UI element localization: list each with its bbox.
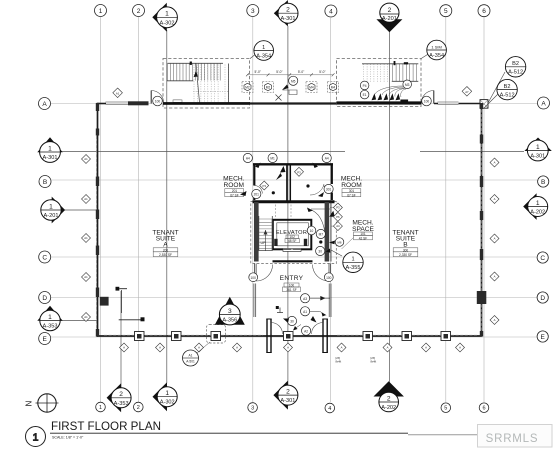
stair treads top-right solid bbox=[393, 64, 417, 81]
svg-text:3: 3 bbox=[228, 308, 232, 315]
svg-text:A1: A1 bbox=[116, 91, 120, 95]
svg-text:4: 4 bbox=[328, 406, 331, 412]
svg-text:301: 301 bbox=[349, 189, 355, 193]
svg-text:3: 3 bbox=[251, 8, 255, 15]
black block on wall bbox=[400, 100, 408, 102]
entry tag circles A3 A1 A2 30 bbox=[287, 294, 310, 336]
svg-text:A7: A7 bbox=[465, 90, 469, 94]
svg-text:5'-0": 5'-0" bbox=[319, 70, 325, 74]
section line A-301 horizontal right bbox=[420, 151, 524, 153]
svg-text:C: C bbox=[540, 255, 545, 262]
svg-text:A-301: A-301 bbox=[530, 154, 545, 160]
entry door left leaf bbox=[254, 264, 256, 282]
break mark X bbox=[276, 95, 282, 101]
svg-text:A: A bbox=[42, 101, 47, 108]
svg-text:A-353: A-353 bbox=[114, 401, 129, 407]
svg-text:A-354: A-354 bbox=[429, 53, 444, 59]
svg-text:1: 1 bbox=[536, 200, 540, 207]
svg-text:48 SF: 48 SF bbox=[288, 239, 297, 243]
svg-text:2,530 SF: 2,530 SF bbox=[159, 253, 172, 257]
svg-text:P3: P3 bbox=[297, 170, 301, 174]
svg-text:A: A bbox=[541, 100, 546, 107]
left grid bubbles A-E bbox=[39, 98, 52, 345]
mech rooms divider wall bbox=[287, 164, 290, 200]
black dot near right wall bbox=[319, 240, 322, 243]
mech room right door swing bbox=[324, 185, 332, 193]
section line A-201 leader left bbox=[61, 209, 97, 211]
detail marker 3/A-356 in plan (top-half black) bbox=[215, 297, 245, 325]
svg-text:1: 1 bbox=[351, 257, 354, 263]
arrows near elevator right bbox=[307, 208, 313, 213]
section marker 2/A-201 top (bottom-half black) bbox=[376, 3, 402, 32]
top wall sill mark bbox=[174, 100, 181, 103]
window tag diamond top right A7 bbox=[462, 87, 472, 97]
section line A-353 vertical (bottom) bbox=[120, 291, 122, 388]
svg-text:P4: P4 bbox=[363, 84, 367, 88]
svg-text:E: E bbox=[541, 334, 546, 341]
title underline bbox=[50, 432, 408, 434]
svg-text:A-202: A-202 bbox=[381, 405, 396, 411]
door tag 100B top-left bbox=[153, 96, 163, 106]
svg-text:M8: M8 bbox=[338, 241, 342, 245]
svg-text:A-201: A-201 bbox=[382, 16, 397, 22]
section line A-301 horizontal left bbox=[57, 151, 345, 153]
svg-text:1: 1 bbox=[165, 390, 169, 397]
right grid bubbles A-E bbox=[537, 97, 549, 342]
svg-text:A1: A1 bbox=[84, 275, 88, 279]
svg-text:A-353: A-353 bbox=[43, 324, 58, 330]
exterior wall top (grid A) bbox=[97, 103, 482, 337]
curved leaders from M3 to flags bbox=[375, 86, 406, 97]
vestibule door arcs at bottom wall bbox=[271, 323, 283, 335]
svg-text:5'-0": 5'-0" bbox=[298, 70, 304, 74]
section marker 1/A-302 bottom (left-half black) bbox=[153, 382, 178, 411]
watermark line bbox=[408, 434, 478, 436]
small duct outline below M5 bbox=[283, 90, 298, 95]
door top-left swing arc bbox=[151, 91, 164, 104]
entry black arrows bbox=[311, 316, 317, 323]
svg-text:5: 5 bbox=[444, 8, 448, 15]
section marker 2/A-202 bottom (top-half black) bbox=[374, 381, 404, 412]
stair enclosure top-left (dashed) bbox=[163, 59, 250, 109]
right wall window glazing dashes bbox=[480, 110, 482, 332]
black tick top-right bbox=[394, 61, 396, 65]
svg-text:A3: A3 bbox=[303, 297, 307, 301]
svg-text:A: A bbox=[494, 275, 496, 279]
section line A-302 vertical bbox=[57, 26, 524, 388]
section marker 1/A-301 right (top-half black) bbox=[524, 138, 551, 161]
tag M5 circle bbox=[289, 76, 298, 85]
svg-text:M7: M7 bbox=[319, 233, 324, 237]
section line A-201/A-202 vertical bbox=[388, 31, 390, 386]
svg-text:1: 1 bbox=[536, 144, 540, 151]
svg-text:1: 1 bbox=[99, 405, 102, 411]
svg-text:A1: A1 bbox=[84, 157, 88, 161]
svg-text:A: A bbox=[494, 318, 496, 322]
svg-text:4: 4 bbox=[329, 8, 333, 15]
svg-text:8x4ft: 8x4ft bbox=[336, 360, 342, 364]
svg-text:6: 6 bbox=[482, 8, 486, 15]
top-right corner block bbox=[480, 100, 488, 109]
stair enclosure top-right (dashed) bbox=[337, 59, 422, 107]
svg-text:1: 1 bbox=[99, 8, 103, 15]
demo notes below wall bbox=[336, 356, 377, 364]
svg-text:67 SF: 67 SF bbox=[347, 194, 356, 198]
core stair treads bbox=[259, 219, 272, 249]
svg-text:100: 100 bbox=[326, 276, 332, 280]
svg-text:M2: M2 bbox=[245, 86, 250, 90]
arrows at core right wall bbox=[329, 211, 335, 217]
svg-text:A4: A4 bbox=[336, 224, 340, 228]
svg-text:2: 2 bbox=[137, 8, 141, 15]
bottom grid bubbles 1-6 bbox=[96, 402, 489, 413]
wall under stair top-left (thick) bbox=[163, 102, 250, 105]
mech rooms top wall bbox=[253, 163, 333, 165]
elevator door detail bbox=[283, 249, 301, 251]
A1/A-501 tag below wall bbox=[183, 342, 211, 366]
svg-text:2: 2 bbox=[388, 7, 392, 14]
mech rooms bottom wall (lobby top) bbox=[253, 200, 335, 203]
svg-text:SRRMLS: SRRMLS bbox=[486, 433, 539, 445]
core stair sides bbox=[259, 216, 273, 251]
svg-text:A-301: A-301 bbox=[281, 16, 296, 22]
svg-text:1: 1 bbox=[33, 431, 39, 443]
svg-text:A-201: A-201 bbox=[44, 213, 59, 219]
svg-text:67 SF: 67 SF bbox=[230, 194, 239, 198]
mech space door arc bbox=[313, 211, 327, 246]
svg-text:1: 1 bbox=[165, 11, 169, 18]
svg-text:A-301: A-301 bbox=[43, 155, 58, 161]
exterior wall right (line 6) bbox=[481, 103, 483, 337]
leader arrows from A4/M1 bbox=[255, 163, 318, 173]
svg-text:A1: A1 bbox=[84, 236, 88, 240]
svg-text:B: B bbox=[403, 241, 408, 248]
section marker 1/A-353 left (top-half black) bbox=[37, 306, 62, 331]
curved leader from 301 tag bbox=[310, 184, 324, 195]
stair treads top-left upper flight bbox=[168, 64, 221, 81]
svg-text:A: A bbox=[494, 237, 496, 241]
door top-left leaf bbox=[150, 91, 152, 104]
room tag left mech bbox=[225, 189, 244, 197]
svg-text:A-512: A-512 bbox=[508, 70, 523, 76]
small mark near entry left bbox=[277, 308, 283, 313]
svg-text:A-302: A-302 bbox=[160, 400, 175, 406]
svg-text:SCALE: 1/8" = 1'-0": SCALE: 1/8" = 1'-0" bbox=[52, 436, 84, 440]
svg-text:30: 30 bbox=[318, 250, 322, 254]
elevation circle 1/A-354 top middle bbox=[250, 41, 274, 61]
wall under stair top-right (thick) bbox=[337, 101, 422, 104]
svg-text:5'-0": 5'-0" bbox=[255, 70, 261, 74]
svg-text:A4: A4 bbox=[246, 157, 250, 161]
exterior wall bottom (grid E) bbox=[97, 335, 482, 337]
section line A-353 leader left bbox=[57, 320, 97, 322]
svg-text:A1: A1 bbox=[189, 354, 193, 358]
svg-text:A: A bbox=[494, 197, 496, 201]
svg-text:42 SF: 42 SF bbox=[359, 236, 368, 240]
right wall window stubs bbox=[480, 103, 483, 337]
tag E1 bbox=[360, 90, 369, 99]
section marker 1/A-301 left (top-half black) bbox=[37, 137, 62, 162]
entry door tag 100A left bbox=[249, 273, 258, 282]
svg-text:A: A bbox=[236, 346, 238, 350]
svg-text:[2X]: [2X] bbox=[371, 356, 376, 360]
grid lines bbox=[51, 17, 537, 402]
window tag diamonds right wall bbox=[490, 158, 499, 325]
window tag diamonds bottom wall bbox=[120, 343, 465, 352]
dimension ticks bbox=[246, 73, 335, 76]
M7 circle tag bbox=[316, 229, 325, 238]
detail circle 1/A-355 right of core bbox=[331, 250, 363, 273]
entry hall wall right bbox=[329, 284, 331, 318]
elevator shaft bbox=[273, 220, 312, 250]
svg-text:301: 301 bbox=[326, 188, 332, 192]
svg-text:1 SIM: 1 SIM bbox=[431, 44, 441, 49]
dimension line between stairs bbox=[247, 74, 333, 76]
core dashed outline bbox=[251, 202, 336, 264]
north arrow bbox=[36, 394, 59, 412]
top grid bubbles 1-6 bbox=[95, 5, 491, 18]
svg-text:B2: B2 bbox=[512, 61, 519, 67]
svg-text:M4: M4 bbox=[309, 86, 314, 90]
core left wall bbox=[254, 202, 259, 262]
svg-text:A-501: A-501 bbox=[186, 360, 195, 364]
svg-text:2: 2 bbox=[286, 7, 290, 14]
svg-text:2: 2 bbox=[119, 391, 123, 398]
svg-text:2: 2 bbox=[137, 405, 140, 411]
svg-text:FIRST FLOOR PLAN: FIRST FLOOR PLAN bbox=[51, 420, 161, 433]
elevator car bbox=[277, 223, 309, 246]
svg-text:201: 201 bbox=[254, 193, 260, 197]
entry leader lines/arrows bbox=[310, 296, 330, 300]
svg-text:1: 1 bbox=[262, 45, 265, 51]
svg-text:A-356: A-356 bbox=[222, 318, 237, 324]
svg-text:6: 6 bbox=[482, 406, 485, 412]
mech rooms right wall bbox=[331, 164, 333, 201]
svg-text:100: 100 bbox=[289, 284, 295, 288]
svg-text:1: 1 bbox=[49, 203, 53, 210]
svg-text:8x4ft: 8x4ft bbox=[371, 360, 377, 364]
leaders from right core tags bbox=[330, 208, 333, 227]
door tag 201 bbox=[252, 189, 261, 198]
section marker 1/A-201 left (right-half black) bbox=[41, 197, 65, 224]
svg-text:1: 1 bbox=[48, 145, 52, 152]
svg-text:201: 201 bbox=[232, 189, 238, 193]
tenant A demising partition bbox=[116, 287, 145, 322]
svg-text:A-355: A-355 bbox=[346, 265, 361, 271]
tag P4 bbox=[360, 81, 369, 90]
svg-text:A: A bbox=[159, 346, 161, 350]
30 circle tag (elevator) bbox=[316, 246, 325, 255]
M5 leader flag bbox=[282, 85, 289, 91]
svg-text:A: A bbox=[459, 346, 461, 350]
right wall column at grid D bbox=[477, 291, 487, 304]
svg-text:100: 100 bbox=[155, 100, 161, 104]
stair treads top-right dotted bbox=[364, 64, 388, 82]
svg-text:M4: M4 bbox=[331, 86, 336, 90]
svg-text:5: 5 bbox=[444, 406, 447, 412]
svg-text:A: A bbox=[287, 346, 289, 350]
entry vestibule left wall bbox=[266, 319, 328, 353]
svg-text:M5: M5 bbox=[291, 79, 296, 83]
svg-text:E: E bbox=[43, 336, 48, 343]
section marker 1/A-202 right (left-half black) bbox=[523, 193, 548, 220]
svg-text:A-302: A-302 bbox=[160, 20, 175, 26]
svg-text:E1: E1 bbox=[363, 93, 367, 97]
svg-text:A: A bbox=[387, 346, 389, 350]
core stair UP arrow bbox=[265, 230, 267, 251]
bottom wall glazing dashes bbox=[104, 334, 478, 336]
top wall solid segment bbox=[128, 101, 149, 105]
svg-text:A: A bbox=[163, 241, 168, 248]
svg-text:A-512: A-512 bbox=[500, 92, 515, 98]
svg-text:ROOM: ROOM bbox=[224, 182, 245, 189]
svg-text:ROOM: ROOM bbox=[341, 182, 362, 189]
stair top-left edge lines bbox=[167, 63, 229, 102]
svg-text:1: 1 bbox=[48, 314, 52, 321]
bottom wall columns bbox=[135, 332, 451, 341]
entry vestibule right wall bbox=[322, 319, 324, 353]
P3 diamonds in mech rooms bbox=[260, 167, 304, 190]
svg-text:3: 3 bbox=[251, 406, 254, 412]
lobby dashed guides bbox=[276, 205, 292, 220]
louver tag boxes M2 M2 M4 M4 bbox=[242, 82, 339, 93]
svg-text:B: B bbox=[43, 179, 47, 186]
entry door right swing arc bbox=[313, 265, 330, 282]
svg-text:2: 2 bbox=[286, 388, 290, 395]
stair top-left dotted landing line bbox=[193, 91, 228, 93]
door top-right leaf bbox=[433, 91, 435, 104]
mech space tag leader bbox=[342, 238, 354, 250]
svg-text:A1: A1 bbox=[303, 310, 307, 314]
door tag 100B top-right bbox=[422, 96, 432, 106]
svg-text:P6: P6 bbox=[336, 215, 340, 219]
black tick on top edge bbox=[190, 62, 192, 65]
svg-text:P3: P3 bbox=[336, 206, 340, 210]
svg-text:A1: A1 bbox=[84, 197, 88, 201]
svg-text:M3: M3 bbox=[405, 83, 410, 87]
dashed box around column near A-356 bbox=[207, 325, 226, 344]
tag 10 circle at elevator bbox=[307, 226, 316, 235]
exterior wall left (line 1) bbox=[97, 103, 99, 337]
svg-text:2,330 SF: 2,330 SF bbox=[399, 253, 412, 257]
elevator door posts bbox=[274, 239, 277, 246]
svg-text:P3: P3 bbox=[262, 184, 266, 188]
svg-text:100: 100 bbox=[251, 276, 257, 280]
detail circles B2/A-512 top right corner bbox=[484, 57, 526, 108]
elevation circle 1 SIM/A-354 top right bbox=[421, 40, 446, 60]
watermark box SRRMLS bbox=[478, 425, 553, 448]
top wall window band left bbox=[106, 100, 489, 109]
left wall window stubs bbox=[96, 103, 109, 337]
left wall window glazing dashes bbox=[95, 136, 97, 329]
core top tag circles A4 M1 A4 bbox=[243, 153, 331, 162]
room tag right mech bbox=[342, 189, 361, 197]
svg-text:5'-0": 5'-0" bbox=[276, 70, 282, 74]
door top-right swing arc bbox=[421, 91, 434, 104]
stair top-right edge lines bbox=[362, 64, 418, 82]
svg-text:N: N bbox=[25, 401, 34, 407]
svg-text:C: C bbox=[42, 254, 47, 261]
svg-text:A1: A1 bbox=[84, 315, 88, 319]
svg-text:2: 2 bbox=[387, 395, 391, 402]
svg-text:A: A bbox=[123, 346, 125, 350]
entry door left swing arc bbox=[256, 265, 273, 282]
svg-text:D: D bbox=[540, 295, 545, 302]
svg-text:A: A bbox=[494, 161, 496, 165]
svg-text:300: 300 bbox=[403, 248, 409, 252]
window tag diamonds left wall bbox=[82, 155, 91, 322]
svg-text:D: D bbox=[42, 295, 47, 302]
svg-text:A-354: A-354 bbox=[256, 53, 271, 59]
tag M3 bbox=[403, 80, 412, 89]
svg-text:A: A bbox=[198, 346, 200, 350]
svg-text:30: 30 bbox=[290, 320, 294, 324]
arrows in mech rooms bbox=[276, 173, 282, 180]
section marker 2/A-353 bottom (left-half black) bbox=[107, 383, 132, 412]
svg-text:361 SF: 361 SF bbox=[286, 288, 296, 292]
svg-text:B2: B2 bbox=[504, 84, 511, 90]
core bottom wall between entry doors bbox=[273, 260, 313, 262]
window tag diamond top wall A1 bbox=[113, 88, 123, 98]
stair top-left run diagonal bbox=[196, 64, 200, 103]
elevator sill rect below shaft bbox=[283, 249, 301, 252]
svg-text:A2: A2 bbox=[304, 329, 308, 333]
stair treads top-left dotted flight bbox=[194, 65, 229, 103]
title circle 1 bbox=[26, 427, 46, 447]
door tag 301 bbox=[324, 184, 333, 193]
svg-text:A-301: A-301 bbox=[280, 398, 295, 404]
svg-text:A: A bbox=[341, 346, 343, 350]
svg-text:[2X]: [2X] bbox=[336, 356, 341, 360]
entry hall wall left bbox=[254, 284, 256, 318]
svg-text:200: 200 bbox=[163, 248, 169, 252]
right core side tags P3 P6 A4 M8 bbox=[333, 203, 342, 231]
left wall column at grid D bbox=[100, 297, 109, 306]
svg-text:100: 100 bbox=[424, 100, 430, 104]
stair arrowhead bbox=[194, 72, 199, 78]
top wall window band right bbox=[438, 102, 459, 104]
svg-text:A-202: A-202 bbox=[530, 210, 545, 216]
svg-text:ENTRY: ENTRY bbox=[280, 275, 304, 282]
entry door right leaf bbox=[329, 264, 331, 282]
door sill rect on wall bbox=[173, 100, 182, 102]
svg-text:B: B bbox=[541, 179, 545, 186]
section marker 2/A-301 top bbox=[274, 0, 298, 26]
svg-text:UP: UP bbox=[261, 241, 267, 245]
svg-text:M2: M2 bbox=[266, 86, 271, 90]
svg-text:A: A bbox=[425, 346, 427, 350]
section line A-301 vertical bbox=[287, 26, 289, 385]
core right wall bbox=[325, 202, 330, 262]
entry door tag 100A right bbox=[324, 273, 333, 282]
fixture flags row (black) top-right stair bbox=[372, 93, 401, 100]
svg-text:10: 10 bbox=[310, 229, 314, 233]
svg-text:M1: M1 bbox=[270, 157, 275, 161]
mech rooms left wall bbox=[253, 164, 255, 201]
svg-text:A4: A4 bbox=[325, 157, 329, 161]
section marker 1/A-302 top (left-half black diamond) bbox=[152, 3, 177, 32]
black dots in mech rooms bbox=[272, 191, 275, 194]
mech room left door swing bbox=[254, 186, 262, 194]
section marker 2/A-301 bottom (left-half black) bbox=[273, 381, 298, 410]
